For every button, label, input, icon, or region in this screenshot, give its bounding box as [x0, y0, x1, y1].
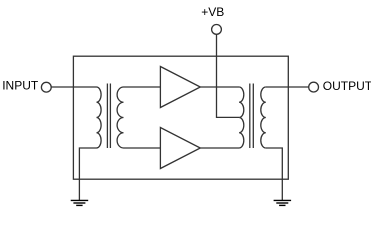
INPUT terminal	[41, 82, 51, 92]
wire: T1 secondary top to amplifier A1 input	[124, 86, 161, 88]
svg-text:OUTPUT: OUTPUT	[323, 79, 371, 93]
ground (left)	[71, 200, 89, 205]
package outline	[73, 56, 288, 179]
transformer T1 core	[106, 84, 108, 149]
wire: T2 secondary bottom to right ground	[266, 148, 283, 200]
wire: T1 secondary bottom to amplifier A2 input	[124, 147, 161, 149]
+VB terminal	[212, 25, 222, 35]
svg-text:+VB: +VB	[201, 5, 224, 19]
wire: INPUT terminal to T1 primary	[51, 86, 96, 88]
wire: A2 output to T2 primary bottom	[200, 147, 239, 149]
op-amp A2 (bottom amplifier)	[160, 128, 200, 169]
OUTPUT terminal	[309, 82, 319, 92]
transformer T2 primary winding	[239, 87, 244, 148]
op-amp A1 (top amplifier)	[160, 67, 200, 108]
ground (right)	[274, 200, 292, 205]
wire: T2 secondary top to OUTPUT terminal	[266, 86, 309, 88]
svg-text:INPUT: INPUT	[2, 79, 39, 93]
wire: +VB terminal to T2 primary center tap	[217, 35, 240, 118]
wire: T1 primary bottom to left ground	[79, 148, 96, 200]
wire: A1 output to T2 primary top	[200, 86, 239, 88]
transformer T1 primary winding	[97, 87, 102, 148]
transformer T2 secondary winding	[261, 87, 266, 148]
transformer T2 core	[249, 84, 251, 149]
transformer T1 secondary winding	[117, 87, 123, 148]
